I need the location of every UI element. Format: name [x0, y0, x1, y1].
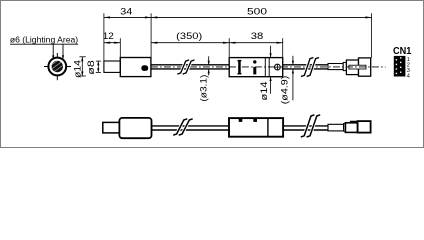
- centerline horizontal of front view: [44, 66, 71, 68]
- connector CN1 body: [394, 56, 406, 77]
- front view lighting area (ø6) filled: [51, 60, 64, 73]
- ø6 extension line left with arrow: [52, 44, 54, 60]
- head barrel ø8 side view: [104, 61, 120, 72]
- front view outer circle (ø14 body): [48, 58, 66, 76]
- svg-text:ø14: ø14: [259, 82, 269, 101]
- svg-text:500: 500: [247, 7, 267, 18]
- svg-text:CN1: CN1: [393, 46, 412, 57]
- svg-text:ø14: ø14: [72, 60, 82, 78]
- bottom view cable head to box: [152, 126, 230, 130]
- connector latch slot: [349, 65, 366, 69]
- svg-text:(350): (350): [176, 31, 202, 42]
- ø6 extension line right with arrow: [62, 44, 64, 60]
- dimension 38 line: [229, 42, 283, 44]
- dimension 34 line: [104, 16, 151, 18]
- bottom view cable box to connector: [283, 126, 328, 130]
- leader underline for ø6 label: [10, 43, 78, 45]
- svg-text:4: 4: [407, 74, 410, 80]
- extension line x=120: [119, 38, 121, 60]
- connector piece A top view: [346, 60, 358, 75]
- bottom view controller box: [229, 118, 283, 137]
- dimension ø14 front view: [80, 57, 86, 76]
- bottom view head barrel: [103, 122, 120, 132]
- indicator glyph dot in box: [253, 60, 256, 63]
- CN1 pin dots: [396, 57, 402, 74]
- bottom view connector piece A: [345, 123, 357, 133]
- svg-text:ø6 (Lighting Area): ø6 (Lighting Area): [10, 35, 78, 45]
- head body ø14 side view: [120, 58, 151, 77]
- dimension 500 line: [151, 16, 372, 18]
- dimension ø8: [96, 61, 101, 72]
- bottom view switch tab 2: [253, 118, 257, 122]
- extension line x=372: [371, 13, 373, 57]
- cable bushing black blob: [141, 65, 148, 71]
- connector sleeve top view: [328, 64, 343, 70]
- svg-text:ø8: ø8: [86, 60, 96, 75]
- extension line x=229: [228, 38, 230, 57]
- bottom view connector mid piece: [344, 124, 346, 132]
- dimension ø14 of box: [270, 46, 272, 94]
- bottom view connector step line: [351, 122, 358, 123]
- controller box divider band: [265, 58, 269, 77]
- cable segment head to box: [151, 65, 229, 69]
- bottom view connector cap B: [358, 121, 371, 133]
- dash-dot centerline of assembly: [151, 66, 386, 68]
- svg-text:12: 12: [103, 31, 114, 42]
- node front-view group: [44, 53, 71, 80]
- svg-text:(ø3.1): (ø3.1): [198, 75, 208, 102]
- svg-text:38: 38: [251, 31, 264, 42]
- controller box outline: [229, 58, 283, 77]
- bottom view box divider: [267, 118, 269, 137]
- indicator glyph bar in box: [253, 67, 256, 75]
- screw head in box: [275, 64, 281, 70]
- svg-text:(ø4.9): (ø4.9): [279, 76, 289, 105]
- connector cap B top view: [359, 58, 371, 76]
- extension line x=104: [103, 13, 105, 60]
- dimension (ø4.9): [292, 56, 294, 101]
- cable break symbol 1 top view: [177, 60, 194, 74]
- frame border: [1, 1, 424, 148]
- CN1 pin numbers: [407, 57, 410, 79]
- connector mid piece top view: [343, 62, 346, 70]
- dimension (ø3.1): [208, 56, 210, 75]
- svg-text:34: 34: [120, 7, 133, 18]
- bottom view connector sleeve: [328, 124, 344, 131]
- dimension (350) line: [151, 42, 229, 44]
- bottom view break symbol 2: [301, 115, 320, 137]
- bottom view break symbol 1: [173, 119, 193, 135]
- switch slider glyph in box: [238, 60, 241, 74]
- cable break symbol 2 top view: [301, 58, 319, 77]
- extension line x=151: [150, 13, 152, 57]
- dimension 12 line: [104, 42, 120, 44]
- bottom view head body: [119, 118, 151, 138]
- centerline vertical of front view: [56, 53, 58, 80]
- cable segment box to connector: [283, 65, 329, 69]
- extension lines for dimensions: [104, 13, 372, 60]
- bottom view switch tab 1: [239, 118, 243, 122]
- extension line x=283: [282, 38, 284, 57]
